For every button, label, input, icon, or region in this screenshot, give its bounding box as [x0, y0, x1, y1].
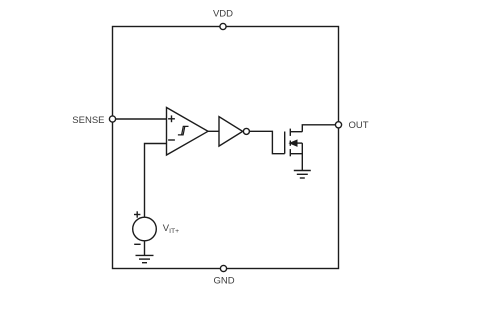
svg-text:VDD: VDD — [213, 9, 233, 20]
wire comparator inverting input to VIT+ source — [145, 144, 167, 218]
wire inverter output to MOSFET gate — [249, 131, 284, 153]
svg-text:SENSE: SENSE — [72, 115, 104, 126]
wire SENSE to comparator non-inverting input — [113, 118, 167, 120]
voltage source VIT+ — [133, 211, 157, 244]
wire comparator output to inverter input — [208, 130, 219, 132]
terminal VDD — [220, 23, 226, 29]
terminal OUT — [335, 122, 341, 128]
ground (MOSFET source) — [294, 171, 311, 179]
svg-text:VIT+: VIT+ — [163, 223, 179, 235]
wire source to ground — [301, 143, 303, 170]
inverter U2 — [219, 117, 249, 147]
svg-text:OUT: OUT — [349, 120, 369, 131]
terminal GND — [220, 265, 226, 271]
svg-text:GND: GND — [213, 276, 234, 287]
terminal SENSE — [109, 116, 115, 122]
transistor Q1 (NMOS) — [285, 129, 303, 157]
device boundary — [113, 27, 339, 269]
comparator U1 — [167, 108, 209, 156]
wire VIT+ to ground — [144, 241, 146, 256]
wire drain to OUT — [302, 125, 338, 132]
ground (VIT+ source) — [136, 255, 154, 262]
